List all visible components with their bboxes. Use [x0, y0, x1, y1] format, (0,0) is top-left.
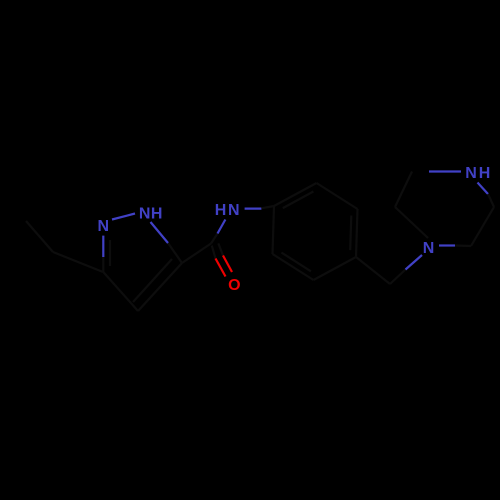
wire: piperazine N1p-C6p bond (blue): [429, 170, 461, 172]
wire: piperazine N4-C3p bond dark half: [455, 244, 471, 247]
wire: piperazine C2p-N1p bond dark half: [488, 194, 494, 207]
svg-text:N: N: [465, 165, 477, 182]
wire: benzene C5-C6 bond: [273, 254, 314, 280]
wire: benzene C6-C1 bond: [273, 206, 275, 254]
wire: benzene C5-C6 inner aromatic line: [281, 253, 311, 272]
wire: piperazine C2p-N1p bond blue half: [478, 183, 489, 195]
wire: amide N to phenyl C1 blue half: [245, 208, 262, 210]
svg-text:N: N: [98, 218, 110, 235]
svg-text:N: N: [228, 202, 240, 219]
wire: amide N to carbonyl C blue half: [218, 220, 226, 234]
wire: ethyl CH3-CH2 bond: [26, 221, 53, 252]
wire: C=O double bond dark halves: [212, 246, 216, 259]
wire: pyrazole N1-C3 bond blue half: [151, 222, 169, 243]
wire: pyrazole ring C5-C4 bond: [103, 272, 138, 311]
wire: pyrazole N2-C5 bond blue half: [102, 236, 104, 257]
wire: piperazine C5p-N4 bond: [395, 207, 428, 238]
wire: benzene C3-C4 inner aromatic line: [350, 216, 351, 251]
wire: piperazine C3p-C2p bond: [471, 207, 494, 246]
svg-text:H: H: [479, 165, 491, 182]
svg-text:N: N: [423, 240, 435, 257]
wire: N4 to benzylic CH2 blue half: [406, 255, 423, 270]
wire: benzene C2-C3 bond: [317, 183, 358, 209]
wire: benzene C4 to benzylic CH2 bond: [356, 257, 390, 284]
wire: pyrazole ring C4-C3 bond: [138, 263, 182, 311]
wire: piperazine N4-C3p bond blue half: [439, 244, 455, 246]
wire: pyrazole N2=C5 dark part of bond: [102, 254, 104, 272]
svg-text:H: H: [215, 202, 227, 219]
wire: benzene C4-C5 bond: [314, 257, 357, 280]
wire: pyrazole C4=C3 inner double bond line: [133, 259, 172, 302]
wire: pyrazole N2-N1 bond (blue): [112, 214, 135, 220]
wire: pyrazole C3 to carbonyl C bond: [182, 244, 211, 264]
svg-text:N: N: [139, 205, 151, 222]
wire: C=O double bond red halves: [216, 259, 226, 277]
svg-text:H: H: [151, 205, 163, 222]
wire: benzene C1-C2 inner aromatic line: [283, 192, 314, 209]
wire: amide N to phenyl C1 dark half: [261, 206, 274, 208]
wire: benzylic CH2 to N4 dark half: [390, 270, 406, 285]
wire: pyrazole N2=C5 inner double bond line: [109, 240, 111, 266]
wire: benzene C3-C4 bond: [356, 209, 358, 257]
svg-text:O: O: [228, 277, 240, 294]
wire: piperazine C6p-C5p bond: [395, 172, 412, 208]
wire: carbonyl C to amide N dark half: [211, 234, 218, 244]
wire: ethyl CH2 to pyrazole C5 bond: [53, 252, 103, 272]
wire: benzene C1-C2 bond: [274, 183, 317, 206]
wire: pyrazole N1-C3 dark part of bond: [168, 243, 182, 263]
